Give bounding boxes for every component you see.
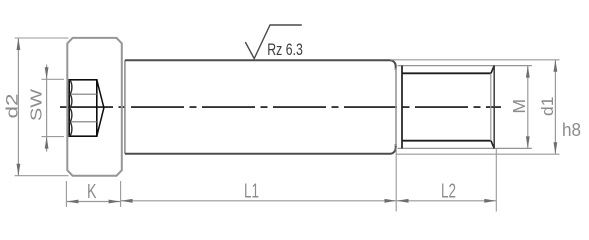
centerline	[60, 106, 501, 108]
d2 label	[3, 94, 22, 119]
svg-text:L2: L2	[441, 181, 456, 203]
dimension M	[527, 66, 529, 149]
shaft right face	[395, 68, 397, 146]
svg-text:K: K	[87, 181, 97, 203]
d1 label	[539, 97, 557, 117]
svg-text:Rz 6.3: Rz 6.3	[267, 40, 303, 59]
svg-text:SW: SW	[29, 89, 46, 121]
head outline	[67, 38, 122, 176]
surface finish symbol	[245, 25, 301, 59]
svg-text:L1: L1	[244, 181, 259, 203]
head-shaft face line	[124, 60, 126, 153]
shaft outline bottom	[125, 144, 396, 154]
dimension L1	[395, 147, 397, 212]
hex socket outline	[69, 80, 97, 136]
SW label	[29, 89, 46, 121]
hex socket flat lines	[69, 93, 97, 95]
svg-text:d2: d2	[3, 94, 22, 119]
hex socket corner arcs	[69, 80, 72, 136]
dimension d2	[15, 37, 69, 39]
dimension SW	[42, 78, 65, 80]
svg-text:h8: h8	[562, 120, 581, 140]
hex socket drill cone	[97, 80, 104, 136]
svg-text:M: M	[509, 99, 529, 114]
dimension K	[65, 181, 67, 207]
thread end face	[493, 66, 495, 149]
shaft outline top	[125, 60, 396, 70]
dimension L2	[495, 149, 497, 212]
M label	[509, 99, 529, 114]
svg-text:d1: d1	[539, 97, 557, 117]
thread root thick lines	[402, 72, 491, 74]
thread crest thin lines + M extension	[398, 65, 532, 67]
thread left face	[401, 66, 403, 149]
thread end chamfer	[490, 73, 492, 140]
dimension d1	[391, 59, 560, 61]
